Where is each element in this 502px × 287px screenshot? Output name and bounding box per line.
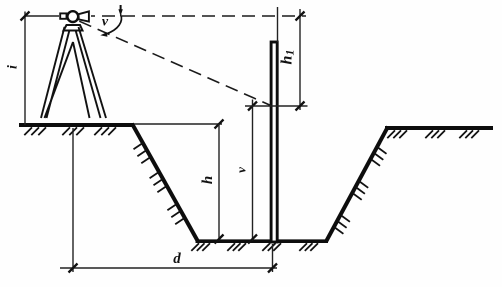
hatching left ground group 2 bbox=[62, 127, 84, 135]
hatching left ground group 3 bbox=[94, 127, 116, 135]
staff axis extension above bbox=[277, 7, 279, 42]
instrument eyepiece bbox=[60, 13, 66, 18]
hatching left slope group 3 bbox=[167, 204, 184, 224]
left slope of trench bbox=[132, 124, 198, 241]
svg-text:h1: h1 bbox=[279, 50, 297, 65]
tripod left leg bbox=[41, 27, 70, 118]
hatching left slope group 2 bbox=[150, 172, 167, 192]
ground line right bbox=[385, 126, 493, 130]
tick v bottom bbox=[248, 235, 257, 244]
d extension line right bbox=[272, 244, 274, 272]
tick i top bbox=[21, 12, 30, 21]
tick h1 top bbox=[296, 12, 305, 21]
ground line left bbox=[19, 123, 134, 127]
tick h1 bottom bbox=[296, 102, 305, 111]
hatching trench bottom group 2 bbox=[227, 243, 246, 251]
tick v top bbox=[248, 102, 257, 111]
arc arrow top bbox=[120, 5, 122, 10]
hatching right ground group 2 bbox=[425, 130, 445, 138]
right slope of trench bbox=[326, 127, 388, 242]
horizontal sight line (dashed) bbox=[91, 15, 306, 17]
tick h bottom bbox=[215, 235, 224, 244]
dimension h1 line bbox=[299, 9, 301, 110]
svg-text:d: d bbox=[173, 251, 181, 267]
tick d right bbox=[268, 264, 277, 273]
dimension i extension line bbox=[25, 15, 59, 17]
hatching right slope group 2 bbox=[352, 181, 368, 200]
tripod middle leg bbox=[45, 42, 90, 118]
hatching right ground group 1 bbox=[387, 130, 407, 138]
arc arrow bottom bbox=[100, 32, 107, 37]
instrument objective bbox=[79, 11, 89, 21]
hatching trench bottom group 4 bbox=[299, 243, 318, 251]
hatching left ground group 1 bbox=[24, 127, 46, 135]
tripod right leg bbox=[76, 27, 107, 118]
hatching trench bottom group 3 bbox=[262, 243, 281, 251]
tick d left bbox=[69, 264, 78, 273]
ground level reference line to h bbox=[134, 123, 222, 125]
dimension i line bbox=[24, 12, 26, 126]
svg-text:h: h bbox=[200, 176, 216, 184]
inclined sight line (dashed) bbox=[79, 21, 271, 105]
svg-text:v: v bbox=[234, 167, 249, 173]
hatching right ground group 3 bbox=[459, 130, 479, 138]
sight level line across staff bbox=[245, 105, 308, 107]
tripod head bbox=[64, 25, 83, 31]
dimension d line bbox=[60, 267, 277, 269]
leveling staff bbox=[271, 42, 277, 242]
tick h top bbox=[215, 120, 224, 129]
trench bottom line bbox=[196, 239, 329, 243]
hatching right slope group 3 bbox=[334, 215, 350, 234]
d extension line left bbox=[72, 128, 74, 272]
dimension v line bbox=[252, 100, 254, 242]
angle arc v bbox=[106, 15, 121, 35]
svg-text:i: i bbox=[6, 65, 21, 69]
dimension h line bbox=[218, 124, 220, 241]
hatching left slope group 1 bbox=[134, 143, 151, 163]
hatching right slope group 1 bbox=[371, 147, 387, 166]
hatching trench bottom group 1 bbox=[191, 243, 210, 251]
instrument telescope body bbox=[67, 11, 78, 22]
svg-text:v: v bbox=[102, 15, 109, 30]
